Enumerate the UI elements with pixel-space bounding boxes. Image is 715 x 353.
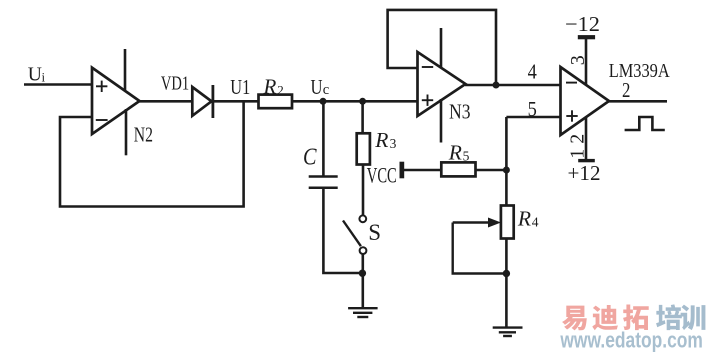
op-amp N3	[418, 52, 466, 116]
comparator bottom power pin 12	[578, 117, 595, 162]
wire R3 top	[361, 101, 364, 133]
wire R5 to node	[476, 169, 507, 172]
power VCC tick	[400, 162, 405, 179]
potentiometer R4	[501, 206, 514, 239]
comparator inverting input minus	[566, 82, 577, 84]
svg-text:N2: N2	[134, 123, 153, 147]
wire switch to ground	[361, 254, 364, 309]
op-amp N2 non-inverting input plus	[96, 81, 107, 92]
comparator U1 LM339A	[561, 67, 610, 135]
label R2	[263, 74, 284, 98]
label pin 4	[528, 59, 538, 83]
svg-text:2: 2	[622, 80, 630, 102]
wire R2 to N3	[292, 100, 418, 103]
wire N2 feedback	[60, 101, 244, 206]
label S	[368, 220, 381, 245]
label C	[303, 145, 317, 171]
svg-text:2: 2	[277, 82, 284, 97]
label U1	[230, 75, 250, 99]
capacitor C	[309, 177, 338, 188]
wire capacitor top	[322, 101, 325, 176]
label Uc	[311, 75, 330, 99]
label pin 3	[567, 55, 589, 65]
wire capacitor bottom	[323, 188, 362, 273]
wire N3 feedback loop	[388, 10, 496, 85]
resistor R2	[259, 95, 293, 109]
wire VCC to R5	[404, 169, 442, 172]
label R5	[448, 141, 470, 165]
svg-text:R: R	[448, 141, 462, 165]
comparator top power pin 3	[578, 35, 595, 85]
svg-text:4: 4	[528, 59, 538, 83]
wire Ui input	[24, 83, 92, 86]
label R4	[517, 206, 539, 230]
svg-text:4: 4	[532, 214, 539, 229]
op-amp N2 bottom power pin	[125, 109, 128, 155]
op-amp N3 non-inverting input plus	[422, 95, 433, 106]
svg-text:R: R	[517, 206, 531, 230]
label LM339A	[609, 60, 670, 82]
svg-text:R: R	[374, 128, 388, 152]
label N2	[134, 123, 153, 147]
svg-text:5: 5	[463, 149, 470, 164]
label VCC	[367, 163, 397, 188]
node junction cap-switch-ground	[359, 270, 366, 277]
node N3 output junction	[493, 82, 500, 89]
op-amp N3 inverting input minus	[422, 66, 433, 68]
svg-text:www.edatop.com: www.edatop.com	[560, 327, 703, 352]
svg-text:U1: U1	[230, 75, 250, 99]
op-amp N2 top power pin	[124, 49, 127, 91]
ground G1	[348, 308, 378, 317]
svg-text:3: 3	[567, 55, 589, 65]
node Ui input label	[28, 65, 46, 86]
resistor R3	[357, 133, 370, 164]
op-amp N2 inverting input minus	[96, 119, 108, 121]
resistor R5	[441, 162, 475, 176]
wire R5 node to pin5	[505, 117, 508, 206]
watermark chinese text	[562, 304, 705, 330]
wire R4 bottom	[505, 239, 508, 328]
wire N3 output pin4	[465, 84, 561, 87]
waveform pulse symbol	[625, 117, 665, 130]
op-amp N3 bottom power pin	[440, 99, 443, 143]
watermark url text	[560, 327, 703, 352]
label R3	[374, 128, 396, 152]
svg-text:U: U	[311, 75, 323, 99]
label VD1	[161, 73, 189, 95]
wire pin5	[506, 116, 560, 119]
node R5 junction	[503, 167, 510, 174]
comparator non-inverting input plus	[566, 110, 577, 121]
op-amp N2	[92, 68, 140, 134]
node Uc junction	[320, 98, 327, 105]
node R3 tap junction	[359, 98, 366, 105]
label pin 5	[528, 97, 537, 121]
wire diode to R2	[212, 100, 259, 103]
switch S	[343, 215, 366, 254]
node R4 bottom junction	[503, 270, 510, 277]
svg-text:−12: −12	[565, 12, 600, 36]
label -12 supply	[565, 12, 600, 36]
wire R4 wiper loop	[453, 223, 507, 274]
svg-text:LM339A: LM339A	[609, 60, 670, 82]
wire comparator output	[609, 100, 668, 103]
svg-text:C: C	[303, 145, 317, 171]
wire N2 output	[139, 100, 193, 103]
label pin 2	[622, 80, 630, 102]
svg-text:R: R	[263, 74, 277, 98]
label pin 12	[566, 134, 588, 159]
wire R3 to switch	[362, 164, 365, 215]
wire R4 wiper arrow	[453, 218, 501, 228]
op-amp N3 top power pin	[440, 28, 443, 68]
svg-text:c: c	[323, 82, 329, 98]
svg-text:U: U	[28, 65, 42, 86]
svg-text:S: S	[368, 220, 381, 245]
ground G2	[493, 328, 523, 336]
diode VD1	[192, 85, 213, 118]
label +12 supply	[568, 161, 601, 185]
svg-text:+12: +12	[568, 161, 601, 185]
svg-text:VCC: VCC	[367, 163, 397, 188]
svg-text:N3: N3	[449, 99, 471, 123]
svg-text:VD1: VD1	[161, 73, 189, 95]
svg-text:i: i	[42, 69, 46, 84]
svg-text:3: 3	[390, 136, 397, 151]
label N3	[449, 99, 471, 123]
